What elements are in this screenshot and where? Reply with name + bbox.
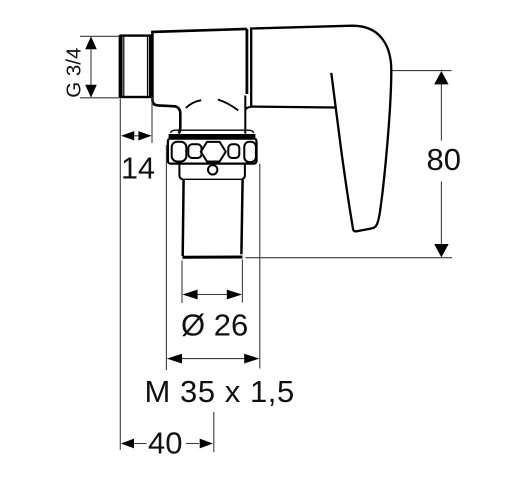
M35 arrows (167, 354, 260, 364)
dimension M35x1.5 (166, 145, 259, 370)
nut facet mid-left (188, 144, 201, 158)
dimension diameter 26 (182, 260, 242, 304)
outlet cylinder (183, 180, 243, 257)
dimension 14 (120, 97, 152, 450)
40 arrows (121, 439, 213, 449)
dimension G3/4: extension lines (80, 36, 119, 98)
svg-text:M 35 x 1,5: M 35 x 1,5 (145, 374, 295, 409)
neck below nut (179, 164, 245, 179)
nut facet left cap (172, 142, 187, 162)
neck right edge (245, 96, 251, 134)
nut flange top line (170, 130, 253, 133)
nut facet center hexagon (201, 142, 226, 162)
nut thick band (169, 134, 256, 139)
svg-text:G 3/4: G 3/4 (62, 48, 85, 98)
14 arrows (121, 131, 152, 140)
hidden cone dash right (218, 100, 238, 111)
diameter 26 arrows (182, 290, 242, 300)
svg-text:40: 40 (148, 425, 182, 460)
svg-text:14: 14 (121, 151, 155, 185)
dimension 40 (134, 412, 214, 452)
nut facet right cap (244, 142, 256, 162)
dimension 80 (246, 71, 453, 258)
hex nut outline (168, 139, 257, 164)
G3/4 arrows (85, 36, 97, 97)
body right division line (245, 29, 248, 94)
drain hole circle (208, 165, 217, 174)
svg-text:80: 80 (427, 142, 461, 177)
nut facet mid-right (228, 144, 239, 158)
svg-text:Ø 26: Ø 26 (181, 308, 248, 343)
outlet bottom edge (182, 256, 242, 259)
lever handle and bonnet (251, 26, 391, 232)
80 arrows (434, 71, 448, 257)
hidden cone dash left (186, 100, 201, 108)
valve main body (152, 29, 247, 134)
outlet shoulder line (183, 178, 242, 180)
threaded inlet G3/4 (121, 35, 151, 97)
